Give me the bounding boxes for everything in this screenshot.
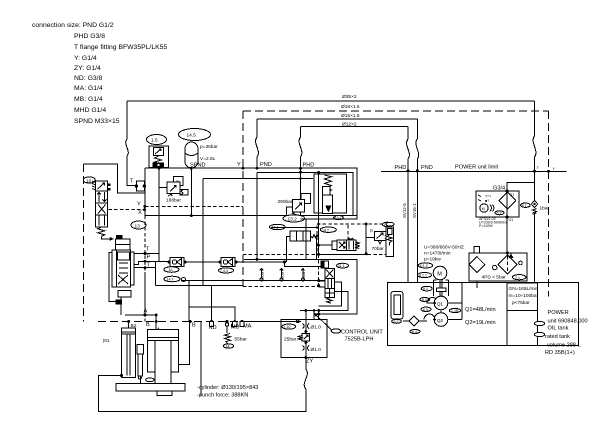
svg-text:14.7: 14.7	[167, 278, 174, 282]
svg-text:PHD: PHD	[303, 163, 315, 169]
pump Q2	[421, 283, 496, 326]
svg-text:connection size: PND G1/2: connection size: PND G1/2	[32, 22, 114, 29]
svg-text:Ø1.0: Ø1.0	[311, 325, 322, 331]
svg-text:P: P	[147, 255, 151, 261]
pipe Ø15×1.5	[257, 113, 417, 119]
T flange fitting	[126, 101, 146, 191]
svg-text:unit 690848.000: unit 690848.000	[548, 319, 588, 325]
node B cyl	[179, 320, 201, 396]
290bar pilot relief	[278, 194, 311, 219]
svg-text:SV12-5: SV12-5	[402, 203, 407, 218]
return filter assembly	[469, 247, 527, 289]
wire MA link	[300, 311, 319, 322]
svg-text:6.2: 6.2	[394, 320, 399, 324]
proportional throttle 14.1	[270, 224, 319, 262]
svg-text:B: B	[146, 322, 150, 328]
svg-text:OIL tank: OIL tank	[548, 326, 569, 332]
wire MA to ZY block	[245, 320, 301, 322]
cooler return wire	[506, 217, 508, 253]
svg-text:U=380/660V-50HZ: U=380/660V-50HZ	[424, 245, 464, 251]
svg-text:■?: ■?	[485, 199, 489, 203]
sensor cylinder 02	[137, 345, 143, 384]
wire CV row	[184, 172, 285, 262]
node T right	[533, 166, 540, 173]
wire x318.5 column	[318, 172, 320, 254]
svg-text:SV16-1: SV16-1	[412, 203, 417, 218]
wire: Ø35×2 right drop with hose	[533, 101, 536, 171]
svg-text:Q1=48L/min: Q1=48L/min	[465, 307, 496, 313]
wire: A pilot dashed drop	[144, 216, 146, 322]
svg-text:T flange fitting BFW35PL/LK55: T flange fitting BFW35PL/LK55	[74, 44, 167, 51]
wire A port line	[125, 272, 158, 331]
node Y right	[547, 167, 556, 173]
svg-text:188bar: 188bar	[166, 198, 181, 204]
relief valve 70bar	[365, 222, 393, 255]
wire: SPND drop x=159	[158, 168, 160, 262]
svg-text:-punch force: 388KN: -punch force: 388KN	[197, 393, 248, 399]
svg-text:T=?: T=?	[485, 195, 491, 199]
node PND left	[256, 162, 272, 170]
svg-text:-cylinder: Ø130/195×843: -cylinder: Ø130/195×843	[197, 385, 258, 391]
pump Q1	[420, 296, 496, 313]
svg-text:V=2.8L: V=2.8L	[200, 156, 216, 162]
wire: left frame to P column	[83, 164, 145, 193]
svg-text:6.1: 6.1	[423, 287, 428, 291]
node PND right	[416, 165, 433, 172]
svg-text:Q2: Q2	[437, 318, 444, 324]
cooler unit	[476, 190, 519, 228]
svg-text:25bar: 25bar	[284, 337, 297, 343]
directional valve 14.2	[317, 223, 359, 251]
svg-text:7525B-LPH: 7525B-LPH	[345, 337, 374, 343]
node SPND	[158, 163, 206, 170]
wire y=254.4 row	[318, 253, 367, 255]
pipe Ø12×2	[301, 122, 409, 128]
svg-text:Y: Y	[237, 162, 241, 168]
svg-text:7.1: 7.1	[515, 276, 520, 280]
svg-text:6.2: 6.2	[497, 211, 502, 215]
svg-text:A: A	[144, 309, 148, 315]
svg-text:B: B	[192, 323, 196, 329]
item oval 7.4.4	[219, 268, 234, 273]
svg-text:Y: G1/4: Y: G1/4	[74, 55, 97, 62]
svg-text:MA: MA	[243, 324, 252, 330]
svg-text:30bar÷: 30bar÷	[280, 269, 284, 280]
valve 14.3 (vertical)	[317, 254, 357, 315]
svg-text:ZY: G1/4: ZY: G1/4	[74, 65, 101, 72]
node PHD right	[395, 165, 410, 172]
boundary dashed vertical x=243	[242, 111, 244, 287]
motor data text	[424, 245, 464, 263]
wire B column	[189, 281, 235, 322]
svg-text:MB: G1/4: MB: G1/4	[74, 96, 103, 103]
wire: T line into manifold	[145, 215, 357, 217]
svg-text:GN=165L/min: GN=165L/min	[509, 286, 539, 292]
svg-text:4PD < 5bar: 4PD < 5bar	[482, 274, 507, 280]
wire ZY routing to cushion	[99, 376, 122, 413]
manifold lower box	[156, 259, 357, 297]
wire: PND left drop with hose	[256, 119, 259, 168]
wire: PND right drop with hose	[416, 119, 419, 171]
manifold block top edge	[202, 179, 204, 286]
oil tank	[387, 282, 578, 345]
svg-text:Ø35×2: Ø35×2	[342, 94, 357, 100]
svg-text:CONTROL UNIT: CONTROL UNIT	[341, 329, 383, 335]
svg-text:ND: G3/8: ND: G3/8	[74, 75, 103, 82]
svg-text:8.1: 8.1	[522, 204, 527, 208]
valve 14.2 dashed enclosure	[317, 224, 392, 255]
node B2	[127, 320, 137, 329]
svg-text:30bar÷: 30bar÷	[302, 269, 306, 280]
svg-text:SPND M33×15: SPND M33×15	[74, 118, 120, 125]
hose ZY down	[99, 359, 308, 412]
port MB	[231, 320, 240, 331]
svg-text:volume 288 L: volume 288 L	[547, 343, 581, 349]
relief valve 188bar	[159, 177, 188, 204]
svg-text:55bar: 55bar	[235, 337, 248, 343]
cooler feed wire	[507, 171, 535, 201]
svg-text:MHD G1/4: MHD G1/4	[74, 107, 106, 114]
boundary dashed vertical right	[548, 111, 550, 297]
svg-text:p<75bar: p<75bar	[512, 300, 530, 306]
svg-text:P=110W: P=110W	[479, 224, 493, 228]
node T upper	[134, 247, 159, 256]
svg-text:MB: MB	[231, 325, 240, 331]
level gauge	[391, 292, 403, 324]
svg-text:|01: |01	[103, 338, 110, 344]
svg-text:MA: G1/4: MA: G1/4	[74, 85, 103, 92]
aux valve box right	[386, 227, 394, 257]
wire pilot to ZY block	[318, 311, 320, 320]
GN data box	[507, 283, 539, 346]
svg-text:6.1.3: 6.1.3	[420, 264, 428, 268]
check valve 14.4a	[145, 258, 187, 267]
svg-text:6.5: 6.5	[423, 308, 428, 312]
svg-text:6.1.1: 6.1.1	[419, 274, 427, 278]
POWER unit limit line	[381, 165, 567, 172]
svg-text:7.10: 7.10	[284, 325, 291, 329]
item oval 16	[164, 267, 179, 273]
svg-text:Q2=19L/min: Q2=19L/min	[465, 320, 496, 326]
port MA	[240, 320, 252, 330]
svg-text:13.2: 13.2	[288, 217, 298, 223]
svg-text:p=35bar: p=35bar	[200, 144, 218, 150]
svg-text:14.5: 14.5	[187, 133, 197, 139]
cartridge valve 13.1	[314, 174, 347, 220]
item oval 14.7	[164, 276, 186, 282]
svg-text:Y: Y	[137, 202, 141, 208]
svg-text:1bar: 1bar	[540, 206, 550, 212]
wire: P drop x=145	[144, 168, 146, 216]
legend text block	[32, 22, 167, 125]
svg-text:M: M	[482, 207, 485, 211]
machine boundary dashed bottom	[98, 321, 281, 323]
svg-text:PHD G3/8: PHD G3/8	[74, 33, 105, 40]
manifold nested right edges	[203, 168, 357, 219]
svg-text:P: P	[370, 229, 373, 235]
node T lower	[134, 263, 156, 270]
svg-text:p=19kw: p=19kw	[424, 257, 441, 263]
svg-text:1.1B: 1.1B	[451, 309, 459, 313]
svg-text:M: M	[437, 272, 442, 278]
wire: left drop from Ø35×2 with hose	[126, 139, 129, 156]
svg-text:Q1: Q1	[437, 301, 444, 307]
machine boundary dashed top	[243, 104, 549, 111]
svg-text:Ø15×1.5: Ø15×1.5	[341, 113, 360, 119]
pilot dashed Y to valve box	[243, 254, 322, 286]
pipe Ø35×2	[127, 94, 535, 101]
svg-text:16: 16	[169, 268, 173, 272]
svg-text:10: 10	[86, 178, 92, 184]
item oval 6.1.3	[418, 263, 432, 268]
drain valve	[403, 316, 427, 334]
svg-text:rated tank: rated tank	[545, 334, 570, 340]
svg-text:m=10÷100bar: m=10÷100bar	[509, 293, 539, 299]
svg-text:6.4: 6.4	[412, 330, 417, 334]
proportional valve 12 (vertical)	[109, 235, 134, 315]
node PHD left	[299, 163, 314, 170]
wire to valve 11.1	[285, 262, 325, 267]
svg-text:PND: PND	[260, 162, 272, 168]
tank data labels	[535, 310, 588, 356]
svg-text:13: 13	[135, 223, 141, 229]
svg-text:70bar: 70bar	[372, 246, 385, 252]
svg-text:ZY: ZY	[306, 359, 313, 365]
port MHD with 55bar relief	[223, 320, 247, 349]
solenoid valve 10 (vertical 4/3)	[83, 177, 112, 240]
item oval 6.1.1	[418, 273, 432, 278]
svg-text:1.5: 1.5	[151, 138, 158, 144]
svg-text:G1: G1	[509, 218, 514, 222]
svg-text:7.4.4: 7.4.4	[220, 269, 228, 273]
main punch cylinder	[147, 330, 178, 384]
svg-text:Ø18×1.5: Ø18×1.5	[341, 104, 360, 110]
test point M3	[301, 269, 306, 281]
svg-text:290bar: 290bar	[278, 199, 293, 205]
item oval 6.1	[421, 286, 432, 291]
svg-text:T: T	[130, 179, 134, 185]
node PHD drop into block	[300, 168, 302, 219]
terminal line left (SPND..PHD)	[145, 168, 357, 216]
CONTROL UNIT label	[315, 314, 384, 343]
check valve 14.4	[218, 258, 237, 267]
pressure switch 1.5	[147, 135, 169, 168]
svg-text:PND: PND	[421, 165, 433, 171]
item oval 13	[131, 221, 146, 229]
wire ND column	[211, 285, 213, 321]
svg-text:POWER unit limit: POWER unit limit	[455, 165, 499, 171]
node P	[134, 255, 151, 265]
svg-text:n=1470t/min: n=1470t/min	[424, 251, 451, 257]
svg-text:6.3: 6.3	[422, 298, 427, 302]
check valve 1bar bypass	[521, 201, 550, 284]
svg-text:Ø1.0: Ø1.0	[311, 347, 322, 353]
svg-text:11.1: 11.1	[338, 264, 345, 268]
boundary dashed vertical left	[82, 164, 84, 322]
svg-text:PHD: PHD	[395, 165, 407, 171]
base plate	[116, 374, 185, 396]
port ND	[209, 320, 217, 331]
node X pilot	[109, 208, 146, 216]
svg-text:G1: G1	[510, 193, 515, 197]
svg-text:RD 35B(1+): RD 35B(1+)	[545, 350, 575, 356]
aux relief oval 5.1	[386, 222, 394, 226]
supply lines PHD/PND down	[402, 171, 417, 283]
svg-text:14: 14	[226, 345, 230, 349]
ZY orifice block	[281, 319, 327, 364]
item oval 13.2	[283, 215, 305, 223]
svg-text:X: X	[138, 210, 142, 216]
svg-text:14.2: 14.2	[322, 228, 329, 232]
node Y pilot	[137, 202, 243, 208]
test point M1	[260, 269, 265, 281]
svg-text:T: T	[146, 247, 150, 253]
svg-text:30bar÷: 30bar÷	[260, 269, 264, 280]
svg-text:POWER: POWER	[548, 310, 569, 316]
node A cyl	[146, 320, 161, 334]
test point M2	[280, 269, 285, 281]
cylinder spec text	[197, 385, 258, 399]
svg-text:ND: ND	[209, 325, 217, 331]
ZY pilot column	[305, 219, 307, 319]
electric motor M	[433, 266, 448, 296]
wire: PHD left drop with hose	[299, 127, 302, 169]
cushion cylinder 01	[103, 328, 136, 378]
wire: inner line y=172.4	[257, 172, 353, 216]
wire: PHD right drop with hose	[407, 127, 410, 171]
node Y	[237, 162, 245, 170]
accumulator 14.5	[179, 129, 219, 218]
